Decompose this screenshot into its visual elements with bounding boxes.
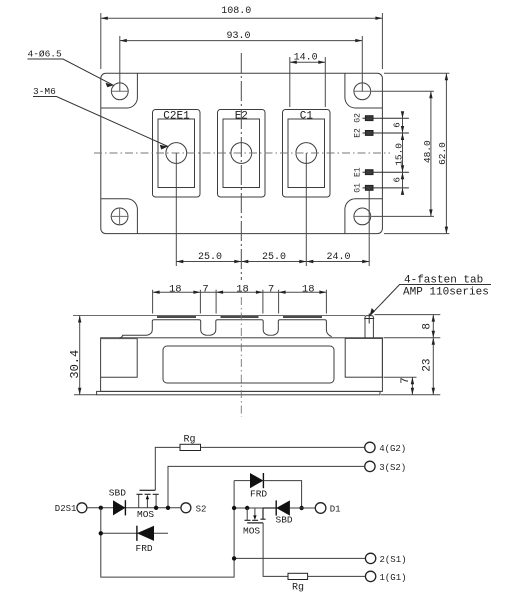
svg-text:7: 7 xyxy=(400,377,412,384)
terminal D2S1 xyxy=(77,503,87,513)
inner recess rect xyxy=(163,346,334,383)
svg-text:7: 7 xyxy=(268,284,274,296)
wire Rg to 4(G2) xyxy=(201,446,365,448)
svg-text:18: 18 xyxy=(236,284,249,296)
gap floor lines xyxy=(206,334,273,336)
svg-text:23: 23 xyxy=(422,358,434,371)
body outline side view xyxy=(101,338,383,392)
svg-text:2(S1): 2(S1) xyxy=(380,555,407,565)
svg-text:AMP 110series: AMP 110series xyxy=(403,287,489,299)
terminal 1(G1) xyxy=(365,571,375,581)
svg-text:C2E1: C2E1 xyxy=(163,110,190,122)
svg-text:48.0: 48.0 xyxy=(422,140,433,163)
svg-text:18: 18 xyxy=(169,284,182,296)
centerline vertical side view xyxy=(240,297,242,417)
tower 3 contact plate xyxy=(283,316,322,318)
wire Rg bottom to 1(G1) xyxy=(308,575,366,577)
dim 25.0 25.0 24.0 bottom xyxy=(176,260,369,263)
MOSFET MOS right (mirrored) xyxy=(245,508,277,523)
svg-text:E2: E2 xyxy=(353,128,362,138)
terminal S2 xyxy=(181,503,191,513)
terminal block E2 inner xyxy=(223,119,260,188)
corner ear bottom-left xyxy=(101,199,138,234)
extension line C1 center to bottom dim xyxy=(305,153,307,266)
terminal block E2 screw hole xyxy=(231,143,252,164)
svg-text:7: 7 xyxy=(202,284,208,296)
svg-text:C1: C1 xyxy=(300,110,314,122)
wire source2 sense to 3(S2) xyxy=(168,466,365,507)
dim 6 / 15.0 / 6 right column xyxy=(401,111,404,195)
svg-text:30.4: 30.4 xyxy=(68,350,82,379)
extension line C2E1 center to bottom dim xyxy=(175,153,177,266)
svg-text:MOS: MOS xyxy=(137,509,154,520)
module outline top view xyxy=(101,73,383,233)
svg-text:15.0: 15.0 xyxy=(394,143,405,166)
junction dot right MOS xyxy=(245,506,249,510)
terminal block C2E1 outer xyxy=(153,110,201,198)
fasten tab xyxy=(365,316,373,338)
wire FRD left row xyxy=(101,532,168,534)
fasten tab cross mark xyxy=(364,314,374,324)
extension line pin column through BR hole xyxy=(368,190,370,266)
left end block xyxy=(101,338,138,377)
svg-text:G1: G1 xyxy=(353,183,362,193)
corner ear top-right xyxy=(345,73,383,108)
dim 23 xyxy=(381,338,440,395)
centerline vertical (module/E2 axis) xyxy=(240,53,242,280)
dim 62.0 xyxy=(384,73,449,233)
pin G1 xyxy=(363,185,409,190)
tower 2 contact plate xyxy=(221,316,259,318)
svg-text:D2S1: D2S1 xyxy=(55,504,77,514)
diode FRD right (pointing right) xyxy=(234,473,315,508)
svg-text:108.0: 108.0 xyxy=(221,6,251,17)
svg-text:MOS: MOS xyxy=(243,526,260,537)
mounting hole bottom-right xyxy=(354,208,371,225)
terminal 3(S2) xyxy=(365,461,375,471)
svg-text:14.0: 14.0 xyxy=(294,53,318,64)
dim 8 xyxy=(375,315,441,338)
svg-text:25.0: 25.0 xyxy=(262,252,286,263)
svg-text:18: 18 xyxy=(302,284,315,296)
MOSFET MOS left xyxy=(137,490,159,508)
svg-text:Rg: Rg xyxy=(292,582,304,593)
terminal block C1 screw hole xyxy=(296,143,317,164)
pin G2 xyxy=(363,116,409,121)
svg-text:3(S2): 3(S2) xyxy=(379,463,406,473)
diode SBD left xyxy=(113,500,125,515)
svg-text:6: 6 xyxy=(393,177,403,182)
tower 1 contact plate xyxy=(157,316,196,318)
baseplate slab xyxy=(97,391,380,394)
left block top line xyxy=(101,338,138,340)
dimension texts top view xyxy=(198,6,448,263)
terminal 4(G2) xyxy=(365,442,375,452)
tower 3 xyxy=(273,320,332,337)
corner ear top-left xyxy=(101,73,138,108)
labels of blocks xyxy=(163,110,313,122)
svg-text:62.0: 62.0 xyxy=(437,142,448,165)
junction dot MOS source xyxy=(154,506,158,510)
svg-text:S2: S2 xyxy=(196,504,207,514)
svg-text:SBD: SBD xyxy=(276,515,293,526)
wire 2(S1) xyxy=(234,557,365,559)
wire SBD right to D1 xyxy=(290,507,315,509)
rotated pin labels xyxy=(353,113,362,193)
junction dot FRD left xyxy=(99,531,103,535)
svg-text:FRD: FRD xyxy=(250,489,267,500)
junction dot FRD right to row xyxy=(299,506,303,510)
right end block xyxy=(345,338,382,377)
dim 93.0 xyxy=(120,36,362,91)
dim 18/7/18/7/18 xyxy=(153,290,327,314)
mounting hole top-left xyxy=(111,83,128,100)
svg-text:G2: G2 xyxy=(353,113,362,123)
dim 108.0 xyxy=(101,13,383,69)
hole crosshairs xyxy=(111,91,372,225)
corner ear bottom-right xyxy=(345,199,383,234)
mounting hole bottom-left xyxy=(111,208,128,225)
mounting hole top-right xyxy=(354,83,371,100)
resistor Rg bottom xyxy=(288,573,308,579)
dim 30.4 xyxy=(73,316,365,395)
terminal block E2 outer xyxy=(218,110,266,198)
svg-text:24.0: 24.0 xyxy=(326,252,350,263)
tower 2 xyxy=(211,320,269,336)
junction dot S2 sense xyxy=(166,506,170,510)
svg-text:SBD: SBD xyxy=(109,488,126,499)
dim 48.0 xyxy=(371,91,434,216)
resistor Rg top xyxy=(180,444,201,450)
wire right branch row xyxy=(234,507,263,509)
svg-text:93.0: 93.0 xyxy=(226,31,250,42)
svg-text:Rg: Rg xyxy=(184,435,196,446)
svg-text:E2: E2 xyxy=(235,110,248,122)
wire main row left xyxy=(87,507,181,509)
junction dot right branch left xyxy=(232,506,236,510)
wire gate1 down to Rg bottom xyxy=(263,523,288,577)
diode FRD left (pointing left) xyxy=(137,526,154,541)
terminal D1 xyxy=(315,503,326,514)
svg-text:8: 8 xyxy=(422,323,434,330)
diode SBD right (pointing left) xyxy=(276,500,290,515)
junction dot 2S1 xyxy=(232,556,236,560)
terminal block C1 outer xyxy=(283,110,331,198)
svg-text:FRD: FRD xyxy=(136,543,153,554)
svg-text:6: 6 xyxy=(393,122,403,127)
svg-text:D1: D1 xyxy=(330,505,341,515)
svg-text:3-M6: 3-M6 xyxy=(33,86,56,97)
terminal block C1 inner xyxy=(288,119,325,188)
dim 7 side xyxy=(384,377,417,395)
pin E1 xyxy=(363,170,409,175)
svg-text:1(G1): 1(G1) xyxy=(380,573,407,583)
leader 4-dia6.5 xyxy=(28,48,114,87)
junction dot S1 node xyxy=(99,506,103,510)
svg-text:4(G2): 4(G2) xyxy=(379,444,406,454)
wire gate2 to Rg xyxy=(155,447,180,490)
leader 4-fasten tab xyxy=(370,275,492,316)
svg-text:E1: E1 xyxy=(353,167,362,177)
plateau step left xyxy=(120,335,148,338)
tower 1 xyxy=(147,320,206,336)
svg-text:4-Ø6.5: 4-Ø6.5 xyxy=(28,48,63,59)
wire S1 down and FRD row xyxy=(101,481,234,577)
dim 14.0 xyxy=(290,57,326,107)
pin E2 xyxy=(363,131,409,136)
leader 3-M6 xyxy=(33,86,168,149)
terminal 2(S1) xyxy=(365,553,375,563)
terminal block C2E1 screw hole xyxy=(166,143,187,164)
terminal block C2E1 inner xyxy=(158,119,195,188)
centerline horizontal xyxy=(94,152,390,154)
schematic labels xyxy=(55,435,407,594)
svg-text:25.0: 25.0 xyxy=(198,252,222,263)
side view texts xyxy=(68,284,434,384)
